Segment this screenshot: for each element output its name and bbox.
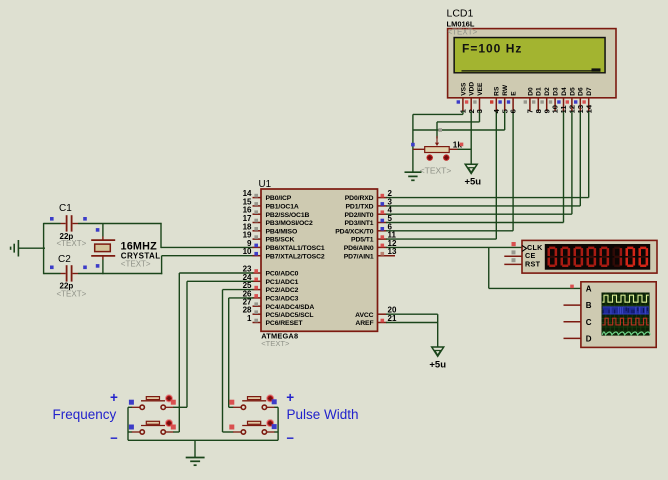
svg-text:PB2/SS/OC1B: PB2/SS/OC1B: [266, 212, 310, 219]
svg-text:PD7/AIN1: PD7/AIN1: [344, 253, 374, 260]
U1 left pin 18 PB4/MISO: [243, 222, 298, 235]
svg-text:+5u: +5u: [429, 359, 446, 370]
U1 left pin 23 PC0/ADC0: [243, 265, 299, 278]
pot adjust button minus: [427, 154, 433, 160]
U1 left pin 27 PC4/ADC4/SDA: [243, 298, 315, 311]
counter/timer instrument body: [522, 240, 657, 273]
svg-text:LCD1: LCD1: [447, 8, 474, 20]
wire PC0 to frequency-minus button: [179, 273, 253, 432]
scope trace B blue pwm band: [603, 306, 649, 314]
svg-text:PB6/XTAL1/TOSC1: PB6/XTAL1/TOSC1: [266, 245, 325, 252]
LCD pin 10 D3: [549, 87, 560, 113]
wire LCD VSS to ground: [413, 111, 463, 172]
LCD second line underline: [462, 70, 601, 72]
scope trace D green wave: [602, 332, 650, 335]
svg-text:PC2/ADC2: PC2/ADC2: [266, 287, 299, 294]
power terminal +5u (U1 AVCC/AREF): [429, 347, 446, 370]
svg-text:21: 21: [388, 314, 397, 323]
svg-text:<TEXT>: <TEXT>: [448, 27, 478, 36]
counter CE pin stub: [504, 255, 522, 257]
crystal X1 16MHZ: [91, 224, 160, 275]
push button pulsewidth plus: [229, 395, 278, 410]
node square CLK: [512, 242, 516, 246]
LCD pin 1 VSS: [457, 82, 468, 113]
counter 7-segment display 00000100: [545, 244, 650, 270]
svg-text:<TEXT>: <TEXT>: [57, 239, 87, 248]
svg-text:PC6/RESET: PC6/RESET: [266, 320, 304, 327]
svg-text:RS: RS: [494, 86, 501, 96]
node square crystal top lead: [96, 228, 100, 232]
wire frequency buttons left rail: [127, 407, 129, 440]
node square crystal bottom lead: [96, 264, 100, 268]
LCD pin 3 VEE: [473, 82, 484, 113]
svg-text:+: +: [110, 390, 118, 405]
svg-text:<TEXT>: <TEXT>: [57, 290, 87, 299]
wire PD6 to counter CLK: [386, 246, 522, 248]
pot adjust button plus: [443, 154, 449, 160]
svg-text:PB5/SCK: PB5/SCK: [266, 237, 295, 244]
svg-text:VSS: VSS: [460, 82, 467, 96]
LCD pin 5 RW: [498, 84, 509, 113]
U1 left pin 16 PB2/SS/OC1B: [243, 206, 310, 219]
oscilloscope body: [581, 282, 656, 348]
scope D pin stub: [564, 337, 581, 339]
svg-text:+: +: [286, 390, 294, 405]
counter RST pin stub: [504, 263, 522, 265]
U1 right pin 12 PD6/AIN0: [344, 239, 397, 252]
U1 left pin 15 PB1/OC1A: [243, 197, 299, 210]
svg-text:D7: D7: [586, 87, 593, 96]
push button frequency minus: [128, 420, 179, 435]
svg-text:C: C: [586, 318, 592, 327]
U1 right pin 6 PD4/XCK/T0: [335, 222, 392, 235]
wire PD6 branch to oscilloscope A: [489, 247, 582, 288]
svg-text:RW: RW: [502, 84, 509, 96]
svg-text:D4: D4: [561, 87, 568, 96]
svg-text:+5u: +5u: [464, 176, 481, 187]
wire LCD VDD to +5u: [470, 111, 472, 164]
svg-text:PD1/TXD: PD1/TXD: [345, 204, 373, 211]
node square pot 1k: [460, 143, 464, 147]
svg-text:PB1/OC1A: PB1/OC1A: [266, 204, 299, 211]
LCD cursor: [592, 68, 601, 71]
scope trace A yellow square wave: [602, 295, 649, 302]
U1 left pin 1 PC6/RESET: [247, 314, 303, 327]
svg-text:PD0/RXD: PD0/RXD: [345, 195, 374, 202]
svg-text:PD3/INT1: PD3/INT1: [344, 220, 373, 227]
node square scope A: [570, 285, 574, 289]
svg-text:−: −: [286, 430, 294, 445]
LCD pin 12 D5: [566, 87, 577, 113]
oscilloscope screen: [602, 293, 650, 336]
svg-text:C2: C2: [58, 254, 71, 265]
wire XTAL1 to U1 pin 9: [161, 223, 253, 248]
svg-text:VEE: VEE: [477, 82, 484, 96]
ground (buttons): [186, 440, 205, 465]
svg-text:PD4/XCK/T0: PD4/XCK/T0: [335, 228, 374, 235]
svg-text:13: 13: [388, 247, 397, 256]
op-amp U1 microcontroller ATMEGA8 body: [259, 179, 378, 348]
svg-text:<TEXT>: <TEXT>: [420, 166, 452, 176]
LCD pin 7 D0: [524, 87, 535, 113]
ground (crystal section, left edge): [11, 240, 19, 257]
U1 left pin 14 PB0/ICP: [243, 189, 292, 202]
U1 right pin 4 PD2/INT0: [344, 206, 392, 219]
LCD pin 9 D2: [540, 87, 551, 113]
node square ground rail: [411, 143, 415, 147]
LCD pin 13 D6: [574, 87, 585, 113]
svg-text:D0: D0: [527, 87, 534, 96]
U1 right pin 20 AVCC: [355, 306, 397, 319]
svg-text:PB7/XTAL2/TOSC2: PB7/XTAL2/TOSC2: [266, 253, 325, 260]
wire PD1 to LCD D6: [386, 111, 580, 206]
svg-text:Frequency: Frequency: [53, 407, 117, 422]
wire buttons bottom rail: [128, 439, 278, 441]
LCD pin 14 D7: [582, 87, 593, 113]
U1 left pin 25 PC2/ADC2: [243, 281, 299, 294]
U1 left pin 28 PC5/ADC5/SCL: [243, 306, 314, 319]
wire ground to left rail: [18, 247, 45, 249]
svg-text:<TEXT>: <TEXT>: [121, 260, 151, 269]
svg-text:B: B: [586, 301, 592, 310]
svg-text:AREF: AREF: [355, 320, 373, 327]
wire PD4 to LCD E: [386, 111, 513, 231]
svg-text:PB0/ICP: PB0/ICP: [266, 195, 292, 202]
svg-text:<TEXT>: <TEXT>: [261, 339, 290, 348]
svg-text:PB3/MOSI/OC2: PB3/MOSI/OC2: [266, 220, 313, 227]
svg-text:Pulse Width: Pulse Width: [287, 407, 359, 422]
U1 right pin 2 PD0/RXD: [345, 189, 393, 202]
svg-text:PC1/ADC1: PC1/ADC1: [266, 279, 299, 286]
svg-text:PC3/ADC3: PC3/ADC3: [266, 296, 299, 303]
wire LCD VEE to pot wiper: [437, 111, 480, 139]
node square C2 right: [83, 266, 87, 270]
U1 left pin 9 PB6/XTAL1/TOSC1: [247, 239, 325, 252]
U1 right pin 11 PD5/T1: [351, 231, 396, 244]
svg-text:D: D: [586, 335, 592, 344]
wire PC3 to pulsewidth-plus button: [229, 298, 254, 407]
U1 right pin 5 PD3/INT1: [344, 214, 392, 227]
U1 left pin 10 PB7/XTAL2/TOSC2: [243, 247, 325, 260]
LCD pin 4 RS: [490, 86, 501, 113]
LCD screen: [453, 37, 605, 74]
svg-text:10: 10: [243, 247, 252, 256]
svg-text:PD5/T1: PD5/T1: [351, 237, 374, 244]
svg-text:VDD: VDD: [469, 82, 476, 96]
svg-text:PB4/MISO: PB4/MISO: [266, 228, 298, 235]
node square RW wire: [438, 128, 442, 132]
svg-text:C1: C1: [59, 203, 72, 214]
wire pulsewidth buttons right rail: [277, 407, 279, 440]
svg-text:D2: D2: [544, 87, 551, 96]
power terminal +5u (LCD VDD): [464, 164, 481, 187]
wire LCD RW to ground rail: [413, 111, 505, 130]
capacitor C2: [44, 254, 87, 298]
svg-text:D1: D1: [536, 87, 543, 96]
svg-text:PD6/AIN0: PD6/AIN0: [344, 245, 374, 252]
wire PD0 to LCD D7: [386, 111, 589, 198]
wire bottom rail C2 to XTAL2 column: [78, 273, 162, 275]
U1 left pin 17 PB3/MOSI/OC2: [243, 214, 313, 227]
svg-text:A: A: [586, 285, 592, 294]
LCD1 LM016L display body: [447, 8, 617, 98]
wire PD5 to LCD RS: [386, 111, 496, 239]
wire crystal left rail: [43, 223, 45, 274]
svg-text:D6: D6: [578, 87, 585, 96]
wire PC2 to pulsewidth-minus button: [223, 290, 254, 432]
scope C pin stub: [564, 321, 581, 323]
svg-text:PC4/ADC4/SDA: PC4/ADC4/SDA: [266, 304, 315, 311]
wire AVCC to +5u: [386, 314, 438, 322]
U1 left pin 26 PC3/ADC3: [243, 289, 299, 302]
wire XTAL2 to U1 pin 10: [162, 256, 254, 275]
svg-text:E: E: [511, 91, 518, 96]
node square RST: [512, 258, 516, 262]
U1 left pin 19 PB5/SCK: [243, 231, 295, 244]
node square C2 left: [50, 266, 54, 270]
U1 right pin 3 PD1/TXD: [345, 197, 392, 210]
wire PC1 to frequency-plus button: [187, 281, 253, 407]
push button pulsewidth minus: [223, 420, 279, 435]
wire top rail C1 to XTAL1 column: [78, 223, 162, 225]
node square C1 left: [50, 217, 54, 221]
U1 right pin 13 PD7/AIN1: [344, 247, 397, 260]
svg-text:AVCC: AVCC: [355, 312, 374, 319]
wire PD2 to LCD D5: [386, 111, 572, 214]
svg-text:F=100 Hz: F=100 Hz: [462, 42, 522, 56]
svg-text:RST: RST: [525, 260, 541, 269]
svg-text:−: −: [110, 430, 118, 445]
potentiometer RV1 1k: [413, 136, 471, 176]
svg-text:PD2/INT0: PD2/INT0: [344, 212, 373, 219]
svg-text:D3: D3: [553, 87, 560, 96]
LCD pin 8 D1: [532, 87, 543, 113]
node square CE: [512, 250, 516, 254]
push button frequency plus: [128, 395, 187, 410]
LCD pin 11 D4: [557, 87, 568, 113]
svg-text:PC5/ADC5/SCL: PC5/ADC5/SCL: [266, 312, 314, 319]
wire AREF to +5u: [386, 323, 438, 348]
U1 right pin 21 AREF: [355, 314, 397, 327]
U1 left pin 24 PC1/ADC1: [243, 273, 299, 286]
LCD pin 2 VDD: [465, 82, 476, 114]
svg-text:1: 1: [247, 314, 252, 323]
wire PD3 to LCD D4: [386, 111, 564, 223]
svg-text:14: 14: [584, 104, 593, 113]
scope B pin stub: [564, 304, 581, 306]
capacitor C1: [44, 203, 87, 248]
svg-text:U1: U1: [259, 179, 272, 190]
node square C1 right: [83, 217, 87, 221]
svg-text:D5: D5: [569, 87, 576, 96]
scope trace C red square wave: [602, 318, 649, 325]
LCD pin 6 E: [507, 91, 518, 114]
ground (below pot): [405, 172, 422, 180]
svg-text:6: 6: [509, 109, 518, 113]
svg-text:PC0/ADC0: PC0/ADC0: [266, 271, 299, 278]
